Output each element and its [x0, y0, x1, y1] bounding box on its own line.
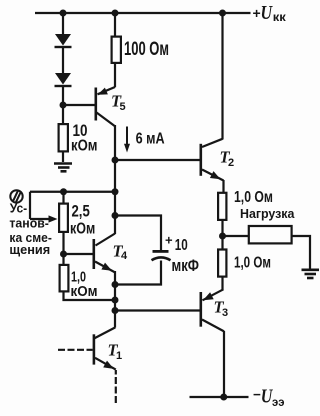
svg-text:кОм: кОм [70, 220, 95, 238]
svg-text:4: 4 [121, 250, 128, 262]
svg-text:1,0 Ом: 1,0 Ом [234, 254, 271, 271]
svg-text:5: 5 [120, 101, 126, 113]
svg-text:1,0 Ом: 1,0 Ом [234, 187, 273, 205]
svg-text:+: + [165, 232, 173, 247]
svg-text:ээ: ээ [272, 395, 285, 409]
svg-text:2,5: 2,5 [72, 202, 91, 221]
svg-text:3: 3 [222, 307, 228, 319]
svg-text:6 мА: 6 мА [136, 129, 165, 147]
svg-text:1: 1 [116, 350, 122, 362]
svg-text:100 Ом: 100 Ом [124, 38, 169, 59]
svg-text:2: 2 [228, 157, 234, 169]
svg-text:танов-: танов- [9, 216, 48, 230]
svg-text:+: + [253, 5, 261, 21]
svg-text:10: 10 [175, 235, 188, 253]
svg-text:щения: щения [9, 242, 50, 257]
svg-text:Ус-: Ус- [10, 201, 28, 215]
svg-text:−: − [253, 387, 261, 402]
svg-text:U: U [261, 1, 274, 23]
svg-text:кк: кк [273, 10, 287, 24]
svg-text:кОм: кОм [71, 283, 98, 300]
svg-text:кОм: кОм [71, 137, 97, 154]
svg-text:Нагрузка: Нагрузка [240, 207, 294, 221]
svg-text:мкФ: мкФ [172, 258, 200, 276]
